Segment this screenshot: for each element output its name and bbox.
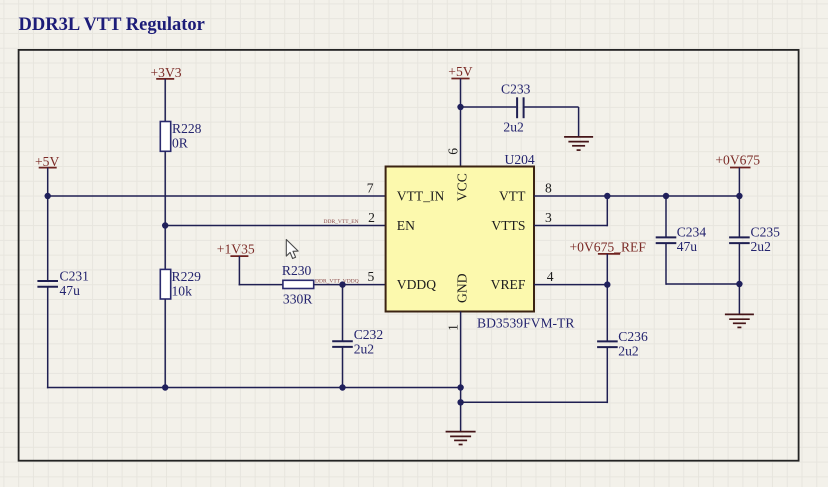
wire EN net [165, 225, 386, 227]
svg-text:C231: C231 [60, 268, 89, 283]
wire +0V675_REF down [606, 254, 608, 285]
svg-text:VCC: VCC [454, 173, 469, 201]
wire +5V to VCC pin [460, 79, 462, 167]
svg-text:2: 2 [368, 210, 375, 225]
svg-text:DDR_VTT_VDDQ: DDR_VTT_VDDQ [315, 278, 359, 284]
svg-text:EN: EN [397, 218, 415, 233]
svg-text:47u: 47u [60, 283, 81, 298]
svg-text:R228: R228 [172, 121, 202, 136]
ground under U204 [446, 432, 476, 445]
wire +5V left to VTT_IN net [47, 168, 49, 196]
wire GND pin to ground [460, 312, 462, 432]
capacitor C231 47u [37, 268, 89, 298]
svg-text:5: 5 [368, 269, 375, 284]
wire to right ground [738, 284, 740, 314]
wire C235 top lead [738, 196, 740, 237]
svg-text:R229: R229 [172, 269, 202, 284]
svg-text:GND: GND [454, 273, 469, 303]
sheet border [19, 50, 799, 461]
svg-text:VTT_IN: VTT_IN [397, 188, 445, 203]
wire C236 bottom lead [606, 347, 608, 403]
svg-text:BD3539FVM-TR: BD3539FVM-TR [477, 315, 575, 330]
node junction VTT/VTTS [604, 193, 610, 199]
wire C236 return to GND pin [461, 401, 608, 403]
svg-text:2u2: 2u2 [618, 343, 639, 358]
svg-text:6: 6 [446, 148, 461, 155]
capacitor C236 2u2 [597, 329, 648, 359]
svg-text:2u2: 2u2 [503, 120, 524, 135]
svg-text:R230: R230 [282, 263, 312, 278]
wire +1V35 down [238, 256, 240, 285]
svg-text:+0V675_REF: +0V675_REF [570, 239, 647, 254]
wire C236 top lead [606, 285, 608, 342]
capacitor C233 2u2 [501, 81, 531, 134]
node junction VREF/C236 [604, 281, 610, 287]
svg-text:VTTS: VTTS [491, 218, 525, 233]
svg-text:+1V35: +1V35 [217, 241, 255, 256]
wire C233 right lead [525, 106, 579, 108]
node junction GND/C236 return [457, 399, 463, 405]
wire C233 left lead [461, 106, 517, 108]
svg-text:+3V3: +3V3 [151, 65, 182, 80]
svg-text:VREF: VREF [491, 277, 526, 292]
svg-text:7: 7 [367, 181, 374, 196]
wire VREF net [534, 284, 607, 286]
resistor R228 0R [160, 121, 201, 152]
svg-text:VTT: VTT [499, 188, 526, 203]
power +5V (top) [448, 64, 472, 79]
wire +3V3 to R228 [164, 79, 166, 122]
wire C232 bottom lead [342, 347, 344, 388]
svg-text:VDDQ: VDDQ [397, 277, 436, 292]
svg-text:U204: U204 [505, 152, 535, 167]
node junction bottom link [736, 281, 742, 287]
capacitor C234 47u [656, 224, 707, 254]
svg-text:8: 8 [545, 181, 552, 196]
wire R229 to ground bus [164, 299, 166, 388]
node junction +5V/C231/VTT_IN [45, 193, 51, 199]
ground under C233 [564, 137, 593, 150]
wire C231 top lead [47, 196, 49, 281]
svg-text:3: 3 [545, 210, 552, 225]
capacitor C232 2u2 [332, 327, 383, 357]
wire C231 bottom lead [47, 287, 49, 389]
wire C233 to ground [578, 107, 580, 137]
svg-text:4: 4 [547, 269, 554, 284]
node junction C232/bus [339, 384, 345, 390]
wire R230 to VDDQ pin [314, 284, 386, 286]
node junction +5V/C233/VCC [457, 104, 463, 110]
svg-text:+5V: +5V [35, 154, 59, 169]
svg-text:C235: C235 [751, 224, 781, 239]
wire +0V675 down to VTT [738, 168, 740, 197]
svg-text:2u2: 2u2 [354, 341, 375, 356]
svg-text:2u2: 2u2 [751, 239, 772, 254]
wire C234 top lead [665, 196, 667, 237]
ground under C235 [725, 314, 754, 327]
capacitor C235 2u2 [729, 224, 780, 254]
wire C235 bottom lead [738, 243, 740, 284]
power +5V (left) [35, 154, 59, 169]
svg-text:1: 1 [446, 324, 461, 331]
svg-text:DDR_VTT_EN: DDR_VTT_EN [324, 219, 359, 225]
node junction C235 top [736, 193, 742, 199]
power +1V35 [217, 241, 255, 256]
svg-text:DDR3L VTT Regulator: DDR3L VTT Regulator [19, 15, 205, 35]
wire C234 bottom lead [665, 243, 667, 285]
power +3V3 [151, 65, 182, 80]
svg-text:C234: C234 [677, 224, 707, 239]
power +0V675 [715, 153, 760, 168]
svg-text:10k: 10k [172, 283, 193, 298]
wire C232 top lead [342, 285, 344, 342]
wire +1V35 to R230 [239, 284, 283, 286]
wire VTT_IN net [48, 195, 386, 197]
mouse cursor [286, 240, 298, 259]
node junction EN net [162, 222, 168, 228]
op-amp U204 BD3539FVM-TR (regulator IC) [386, 152, 576, 331]
wire VTTS up to VTT [606, 196, 608, 226]
node junction GND/bus [457, 384, 463, 390]
wire R228 to R229 [164, 151, 166, 269]
svg-text:+5V: +5V [448, 64, 472, 79]
node junction R229/bus [162, 384, 168, 390]
svg-text:C233: C233 [501, 81, 531, 96]
power +0V675_REF [570, 239, 647, 254]
svg-text:47u: 47u [677, 239, 698, 254]
resistor R230 330R [282, 263, 314, 306]
svg-text:C236: C236 [618, 329, 648, 344]
wire VTTS net [534, 225, 607, 227]
svg-text:C232: C232 [354, 327, 384, 342]
svg-text:+0V675: +0V675 [715, 153, 760, 168]
resistor R229 10k [160, 269, 201, 299]
wire ground bus [47, 387, 461, 389]
svg-text:0R: 0R [172, 135, 189, 150]
node junction VDDQ/C232 [339, 281, 345, 287]
wire C234/C235 bottom link [666, 283, 739, 285]
svg-text:330R: 330R [283, 292, 313, 307]
node junction C234 top [663, 193, 669, 199]
wire VTT net [534, 195, 739, 197]
